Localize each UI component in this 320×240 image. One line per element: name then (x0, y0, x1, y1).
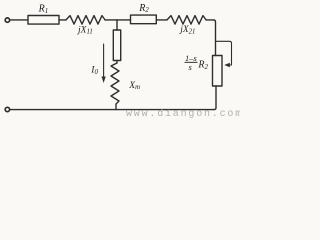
current arrow I0 (103, 44, 105, 78)
inductor jX11 (66, 16, 105, 25)
wire (105, 19, 131, 21)
wire top-left (10, 19, 28, 21)
wire (59, 19, 66, 21)
node A (116, 20, 118, 30)
arrowhead I0 (102, 77, 106, 84)
inductor Xm (111, 61, 119, 110)
resistor R1 (28, 16, 59, 25)
arrow slider on R2(1-s)/s (216, 41, 232, 65)
resistor Rm (middle box) (113, 30, 120, 61)
label (1-s)/s fraction (185, 53, 209, 72)
inductor jX21 (167, 16, 206, 25)
svg-text:www.diangon.com: www.diangon.com (126, 108, 240, 120)
terminal top-left (5, 18, 9, 22)
wire right bottom (214, 86, 216, 110)
resistor R2 (131, 15, 157, 24)
wire (156, 19, 167, 21)
terminal bottom-left (5, 107, 9, 111)
wire bottom (10, 109, 214, 111)
resistor R2(1-s)/s (213, 56, 223, 87)
wire right top corner (206, 20, 216, 56)
arrowhead slider (224, 63, 230, 67)
